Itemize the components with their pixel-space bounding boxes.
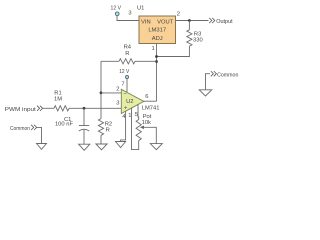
svg-text:Output: Output: [216, 19, 233, 25]
svg-text:R4: R4: [124, 45, 132, 51]
svg-text:U1: U1: [137, 6, 144, 12]
op-amp U2 LM741: [121, 89, 144, 113]
svg-text:5: 5: [135, 112, 138, 118]
svg-text:6: 6: [145, 94, 148, 100]
svg-text:10k: 10k: [142, 120, 151, 126]
svg-text:1M: 1M: [54, 97, 62, 103]
wire pin 1 to pot bottom: [132, 108, 139, 150]
svg-text:LM317: LM317: [148, 28, 166, 34]
resistor R1 1M: [43, 107, 55, 109]
ground Common right: [199, 90, 212, 96]
node ADJ-R4 junction: [155, 60, 158, 63]
svg-text:ADJ: ADJ: [152, 36, 163, 42]
svg-text:2: 2: [116, 86, 119, 92]
ground under wiper: [150, 144, 162, 150]
svg-text:Common: Common: [10, 126, 30, 132]
wiper arrow of pot: [144, 127, 157, 143]
node ADJ-R3 junction: [155, 55, 158, 58]
connector Common right: [206, 74, 211, 90]
svg-text:7: 7: [121, 82, 124, 88]
wire R3 bottom to ADJ: [157, 46, 190, 56]
capacitor C1 100nF: [83, 108, 85, 125]
svg-text:2: 2: [177, 12, 180, 18]
wire R1 to pin 3 of U2: [69, 107, 121, 109]
resistor R2 R: [98, 119, 103, 136]
node VOUT junction: [188, 19, 191, 22]
resistor R3 330: [188, 21, 190, 30]
connector Output chevrons: [209, 18, 215, 23]
regulator U1 LM317: [139, 16, 176, 44]
wire to pin 2 of U2: [101, 92, 121, 94]
ground under C1: [79, 144, 90, 150]
svg-text:100 nF: 100 nF: [55, 122, 74, 128]
potentiometer Pot 10k: [136, 120, 141, 141]
wire R4 left down to inverting input: [100, 61, 102, 118]
svg-text:VIN: VIN: [141, 19, 151, 25]
svg-text:Common: Common: [217, 72, 238, 78]
svg-text:U2: U2: [126, 99, 133, 105]
wire VOUT to output: [176, 20, 209, 22]
svg-text:1: 1: [128, 113, 131, 119]
wire ADJ pin down to op-amp output: [156, 43, 158, 101]
svg-text:Pot: Pot: [143, 114, 152, 120]
svg-text:1: 1: [152, 46, 155, 52]
ground under R2: [96, 144, 107, 150]
node inverting input junction: [100, 91, 103, 94]
svg-text:3: 3: [116, 101, 119, 107]
svg-text:3: 3: [128, 11, 131, 17]
svg-text:LM741: LM741: [142, 106, 160, 112]
svg-text:PWM input: PWM input: [5, 107, 36, 113]
terminal circle 12V U1: [115, 12, 119, 16]
wire R2 to ground: [100, 135, 102, 144]
wire Common left to ground: [37, 127, 42, 143]
wire 12V to pin 7: [126, 79, 128, 93]
ground under pin 4: [116, 142, 126, 148]
node C1 junction: [83, 107, 86, 110]
wire pin 4 to ground: [121, 111, 126, 142]
svg-text:12 V: 12 V: [119, 69, 129, 75]
svg-text:R: R: [125, 51, 129, 57]
wire 12V to U1 VIN: [117, 16, 139, 21]
svg-text:12 V: 12 V: [111, 6, 122, 12]
terminal circle 12V U2: [125, 75, 128, 78]
ground Common left: [37, 144, 47, 150]
resistor R4 R: [101, 60, 119, 62]
svg-text:R: R: [106, 127, 110, 133]
wire pin 5 to pot top: [137, 104, 140, 119]
svg-text:330: 330: [193, 37, 203, 43]
svg-text:VOUT: VOUT: [157, 19, 174, 25]
wire op-amp output to ADJ line: [144, 100, 157, 102]
